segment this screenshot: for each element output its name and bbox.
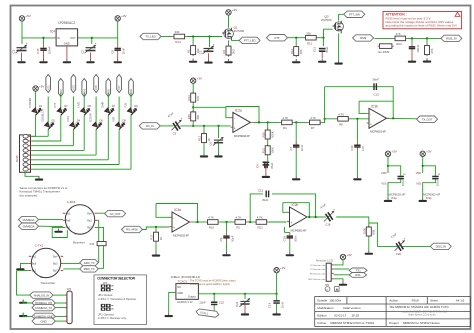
- junction: [295, 121, 297, 123]
- wire to C20: [369, 223, 398, 246]
- supply +3V3 bias: [191, 77, 203, 84]
- pin 4 RJ45: [23, 149, 28, 153]
- junction: [426, 37, 428, 39]
- svg-text:LIVE: LIVE: [77, 102, 81, 108]
- ground IC2p: [384, 198, 392, 202]
- wire RJ45 pin7: [32, 164, 119, 166]
- wire R11 to Q3 gate: [318, 29, 333, 38]
- wire C-TX1 to flag 1200: [63, 262, 79, 264]
- polarized capacitor C2: [81, 41, 97, 53]
- svg-text:100n: 100n: [294, 235, 298, 242]
- op-amp IC3b MCP6002: [367, 104, 389, 133]
- svg-text:Ru1: Ru1: [66, 212, 71, 215]
- wire to C8: [117, 38, 119, 45]
- wire C2 to gnd: [90, 53, 92, 60]
- wire DVMEGA_RX to JP4: [55, 302, 64, 304]
- pin JP4 ANALOG_IN: [64, 294, 67, 296]
- net flag RSSI: [353, 35, 374, 41]
- wire IC2a out: [253, 121, 280, 123]
- svg-text:100K: 100K: [271, 147, 275, 154]
- svg-text:-: -: [291, 211, 292, 215]
- wire Q1 source to flag: [231, 39, 239, 41]
- wire RJ45 pin4: [32, 149, 84, 151]
- svg-text:9600_TX: 9600_TX: [84, 267, 95, 271]
- wire flag to IC3a +in: [143, 227, 170, 230]
- ground R25: [423, 58, 431, 62]
- svg-text:IO5: IO5: [94, 85, 98, 90]
- svg-text:1K: 1K: [159, 237, 163, 241]
- svg-text:R30: R30: [261, 132, 265, 138]
- wire to R30: [267, 122, 269, 129]
- ground IC4: [63, 59, 71, 63]
- wire C-TX1 gnd: [20, 263, 28, 266]
- svg-text:JP1: JP1: [103, 281, 108, 285]
- wire R16 to R2: [220, 221, 234, 223]
- svg-text:+3V: +3V: [346, 253, 351, 257]
- wire C20 to flag: [402, 245, 430, 247]
- svg-text:10K: 10K: [196, 96, 200, 101]
- svg-text:RJ45: RJ45: [15, 155, 19, 162]
- svg-text:according the maximum level of: according the maximum level of RSSI. (He…: [386, 23, 457, 27]
- svg-text:MCP6002-I/P: MCP6002-I/P: [291, 228, 307, 232]
- svg-text:10K: 10K: [196, 115, 200, 120]
- LED D7 DMR: [104, 105, 115, 116]
- svg-text:100nF: 100nF: [47, 46, 51, 54]
- svg-text:JP1 Opened: JP1 Opened: [98, 313, 114, 317]
- svg-text:C9: C9: [219, 237, 223, 241]
- svg-text:10nF: 10nF: [300, 144, 304, 151]
- svg-text:Ru3: Ru3: [87, 219, 92, 222]
- wire R30 to R31: [267, 141, 269, 146]
- wire to C6: [218, 126, 220, 138]
- svg-text:Initial version: Initial version: [343, 306, 361, 310]
- svg-text:Ex-RSSI: Ex-RSSI: [379, 50, 390, 54]
- svg-text:VDD: VDD: [381, 171, 387, 175]
- svg-text:4.7K: 4.7K: [310, 116, 316, 120]
- svg-text:Bu2: Bu2: [32, 270, 37, 273]
- net flag 1200 TX: [80, 259, 99, 265]
- svg-text:R19: R19: [90, 243, 95, 246]
- svg-text:IC3a: IC3a: [174, 208, 181, 212]
- svg-text:OUT: OUT: [70, 36, 76, 40]
- net flag LED6: [106, 79, 111, 97]
- resistor R12 1K: [198, 132, 211, 144]
- resistor R8 4.7K: [336, 112, 350, 126]
- svg-text:R12: R12: [198, 135, 202, 141]
- svg-text:TCXO1: TCXO1: [178, 280, 188, 284]
- svg-text:GND: GND: [64, 42, 70, 46]
- svg-text:2N7000: 2N7000: [321, 18, 332, 22]
- wire C-RX1 gnd loop: [52, 227, 67, 237]
- svg-text:4.7K: 4.7K: [338, 112, 344, 116]
- svg-text:C: C: [403, 173, 407, 175]
- trimmer capacitor C6: [209, 137, 224, 145]
- resistor R14 330: [172, 30, 186, 44]
- title block: [315, 297, 471, 327]
- transistor Q1 2N7000: [222, 25, 244, 40]
- svg-text:R22: R22: [258, 226, 264, 230]
- svg-text:10nF: 10nF: [122, 48, 126, 55]
- svg-text:IC3p: IC3p: [426, 196, 432, 200]
- svg-text:DMR: DMR: [101, 101, 105, 107]
- wire to C22: [213, 294, 215, 302]
- junction: [91, 37, 93, 39]
- svg-text:C13: C13: [374, 93, 380, 97]
- net flag DVMEGA1: [19, 216, 39, 222]
- junction: [387, 165, 389, 167]
- wire C18 to R21: [336, 217, 369, 228]
- wire to C10: [356, 119, 358, 142]
- wire IC3b inner feedback: [359, 100, 393, 102]
- voltage regulator IC4 LP2950ACZ: [50, 21, 78, 59]
- ground C2: [86, 59, 94, 63]
- svg-text:+3V: +3V: [121, 14, 126, 18]
- resistor R24 27K: [393, 32, 407, 46]
- svg-text:+: +: [404, 237, 406, 241]
- net flag RSSI 3V: [441, 35, 462, 41]
- connector JP4 header: [67, 288, 72, 324]
- junction: [155, 226, 157, 228]
- net flag LCD TX: [349, 268, 367, 273]
- net flag DVMEGA_GND: [32, 313, 55, 319]
- svg-text:IC2p: IC2p: [391, 196, 397, 200]
- wire C14 to gnd: [276, 304, 278, 311]
- svg-text:GND Nextion side: GND Nextion side: [308, 278, 326, 281]
- svg-text:39nF: 39nF: [373, 78, 380, 82]
- svg-text:C5: C5: [173, 132, 177, 136]
- svg-text:D6: D6: [100, 118, 104, 122]
- capacitor C8 10nF: [110, 45, 125, 55]
- wire to R10: [295, 38, 297, 46]
- net flag LED4: [82, 79, 87, 97]
- wire C-RX1 down2: [97, 227, 103, 268]
- supply +3V3 IC2p: [385, 150, 397, 157]
- svg-text:ANALOG_IN: ANALOG_IN: [34, 293, 49, 297]
- net flag DISC: [430, 243, 451, 249]
- svg-text:D9: D9: [134, 104, 138, 108]
- junction: [308, 216, 310, 218]
- svg-text:Transmitter: Transmitter: [40, 281, 55, 285]
- svg-text:VSS: VSS: [416, 181, 421, 185]
- svg-text:Ru7: Ru7: [87, 227, 92, 230]
- resistor R13 10K: [187, 92, 200, 104]
- svg-text:-: -: [234, 116, 235, 120]
- wire LCD RX: [334, 274, 350, 276]
- svg-text:C7: C7: [289, 146, 293, 150]
- wire to C1: [21, 38, 23, 44]
- svg-text:NC: NC: [177, 285, 181, 289]
- ground C23: [408, 58, 416, 62]
- svg-text:HCMOS 3.3V: HCMOS 3.3V: [177, 300, 193, 304]
- wire R22 to IC2b: [268, 221, 286, 223]
- junction: [244, 293, 246, 295]
- svg-text:R2: R2: [236, 226, 240, 230]
- polarized capacitor C1: [12, 41, 28, 53]
- wire gnd to flag 2: [23, 313, 32, 317]
- svg-text:Receiver: Receiver: [73, 240, 85, 244]
- svg-text:IC2b: IC2b: [292, 203, 299, 207]
- svg-text:D4: D4: [77, 118, 81, 122]
- svg-text:TX_OUT: TX_OUT: [422, 117, 433, 121]
- svg-text:R16: R16: [209, 226, 215, 230]
- wire R31 to C4: [267, 156, 269, 161]
- net flag DVMEGA_TX: [32, 304, 55, 310]
- svg-text:C3: C3: [199, 50, 203, 54]
- capacitor C10 1nF: [350, 142, 365, 152]
- svg-text:Fichier: Fichier: [317, 321, 326, 325]
- ground R17: [152, 252, 160, 256]
- svg-text:RX1: RX1: [355, 273, 361, 277]
- wire C9 to gnd: [226, 241, 228, 252]
- net flag PTT: [267, 35, 288, 41]
- svg-text:C11: C11: [313, 47, 317, 52]
- ground C3: [204, 59, 212, 63]
- resistor R31 100K: [261, 144, 274, 156]
- net flag XTAL: [196, 308, 220, 317]
- wire R21 to gnd: [368, 238, 370, 251]
- wire LED D2 to connector: [47, 130, 49, 137]
- capacitor C12 39nF: [266, 191, 270, 198]
- wire feedback to -in: [283, 203, 287, 213]
- svg-text:Project: Project: [389, 321, 399, 325]
- wire C13 loop: [325, 87, 394, 119]
- svg-text:Title MMDVM for STM32F4 with: Title MMDVM for STM32F4 with HCMOS TCXO: [389, 305, 449, 309]
- svg-text:Nextion LCD: Nextion LCD: [316, 258, 334, 262]
- polarized capacitor C5 47uF: [167, 111, 183, 135]
- svg-text:-: -: [370, 112, 371, 116]
- capacitor C19 100nF: [282, 232, 297, 242]
- svg-text:YSF: YSF: [112, 116, 116, 121]
- wire cap to gnd IC2p: [388, 179, 401, 197]
- pin JP4 GND: [64, 320, 67, 322]
- svg-text:C2: C2: [81, 49, 85, 53]
- svg-text:10K: 10K: [299, 49, 303, 54]
- svg-text:C18: C18: [325, 223, 331, 227]
- wire R4 to R7: [294, 121, 308, 123]
- wire C1 to gnd: [21, 53, 23, 60]
- svg-text:DVMEGA_TX: DVMEGA_TX: [35, 306, 52, 310]
- connector C-RX1 Receiver: [63, 200, 97, 244]
- wire LCD 5V: [334, 260, 343, 265]
- svg-text:Bu3: Bu3: [53, 263, 58, 266]
- wire C15 to gnd: [43, 54, 45, 59]
- pin 7 RJ45: [23, 163, 28, 167]
- wire RJ45 to ground: [25, 172, 39, 176]
- svg-text:+: +: [26, 41, 28, 45]
- svg-text:D2: D2: [52, 118, 56, 122]
- svg-text:GND: GND: [41, 319, 48, 323]
- pin JP4 DVMEGA_TX: [64, 307, 67, 309]
- svg-text:R11: R11: [307, 41, 312, 45]
- pin JP5 3: [331, 272, 333, 274]
- junction: [422, 165, 424, 167]
- wire to C11: [323, 38, 325, 46]
- resistor R11 330: [304, 31, 318, 45]
- wire gnd to flag: [23, 300, 32, 304]
- net flag TXLED: [140, 33, 161, 39]
- resistor R1 10K: [187, 44, 200, 56]
- svg-text:+3V: +3V: [232, 8, 237, 12]
- svg-text:IC2a: IC2a: [235, 108, 242, 112]
- junction: [392, 117, 394, 119]
- wire RSSI flag to R24: [374, 37, 393, 39]
- net flag 9600 TX: [80, 266, 99, 272]
- wire feedback to -in: [156, 204, 170, 218]
- junction: [249, 221, 251, 223]
- svg-text:4.7K: 4.7K: [208, 216, 214, 220]
- pin JP4 DVMEGA_GND: [64, 315, 67, 317]
- wire to LED D7: [107, 93, 109, 109]
- wire R24 to flag: [407, 37, 441, 39]
- wire +3V3 to R13: [192, 83, 194, 93]
- svg-text:1nF: 1nF: [361, 146, 365, 151]
- svg-text:Ru2: Ru2: [66, 227, 71, 230]
- net flag LCD RX: [349, 273, 367, 278]
- wire C8 to gnd: [117, 54, 119, 59]
- wire C-RX1 to flag: [97, 212, 104, 214]
- svg-text:RX_IN: RX_IN: [146, 124, 154, 128]
- LED D5 LIVE: [80, 105, 91, 116]
- svg-text:100nF: 100nF: [436, 178, 440, 186]
- wire R12 to gnd: [203, 144, 205, 153]
- svg-text:+: +: [370, 122, 372, 126]
- svg-text:R8: R8: [339, 122, 343, 126]
- resistor R4 4.7K: [280, 116, 294, 130]
- svg-text:D3: D3: [64, 104, 68, 108]
- svg-text:R7: R7: [311, 126, 315, 130]
- LED D9 P25: [127, 105, 138, 116]
- LED D2 SQUELCH: [44, 120, 55, 131]
- supply +3V3 Q1: [226, 8, 238, 15]
- resistor R19: [90, 242, 106, 246]
- wire C7 to gnd: [295, 151, 297, 177]
- op-amp IC2b MCP6002: [287, 203, 309, 232]
- wire C3 to gnd: [208, 53, 210, 59]
- polarized capacitor C20 47uF: [390, 232, 406, 256]
- svg-text:47uF: 47uF: [325, 46, 329, 53]
- resistor R25 47K: [425, 44, 434, 56]
- wire to LED D5: [83, 93, 85, 109]
- svg-text:+3V: +3V: [426, 150, 431, 154]
- op-amp IC3a MCP6002: [170, 208, 192, 237]
- wire vref to feedback: [193, 106, 226, 108]
- svg-text:+: +: [181, 116, 183, 120]
- oscillator TCXO1 FOX924B: [176, 284, 199, 305]
- wire LED D6 to connector: [95, 130, 97, 155]
- wire TCXO gnd: [169, 292, 176, 312]
- svg-text:1K: 1K: [207, 138, 211, 142]
- junction: [192, 106, 194, 108]
- wire R14 to Q1 gate: [186, 36, 222, 38]
- svg-text:R17: R17: [150, 234, 154, 240]
- svg-text:JP4: JP4: [67, 288, 72, 291]
- capacitor C15 100nF: [36, 45, 51, 55]
- ground C-TX1: [16, 266, 24, 270]
- svg-text:LP2950ACZ: LP2950ACZ: [58, 21, 75, 25]
- wire IC4 output to +3V3: [78, 22, 118, 38]
- wire R17 to gnd: [155, 243, 157, 253]
- resistor R10 10K: [290, 45, 303, 57]
- svg-text:22nF: 22nF: [199, 301, 206, 305]
- svg-text:DSTAR: DSTAR: [89, 113, 93, 122]
- ground R1: [189, 59, 197, 63]
- wire C-TX1 to flag 9600: [63, 268, 79, 270]
- wire C23 to gnd: [411, 52, 413, 58]
- wire to R12: [203, 126, 205, 133]
- connector JP5 Nextion: [325, 263, 331, 287]
- LED D4 COS: [69, 120, 80, 131]
- svg-text:TX_LED: TX_LED: [145, 35, 156, 39]
- pin JP5 4: [331, 278, 333, 280]
- svg-text:Ru6: Ru6: [66, 219, 71, 222]
- ground IC3p: [419, 198, 427, 202]
- wire LED D4 to connector: [72, 130, 74, 146]
- svg-text:5V Nextion side: 5V Nextion side: [310, 264, 326, 267]
- ground C4: [262, 174, 270, 178]
- capacitor C14 10nF: [267, 300, 284, 308]
- wire C5 to IC2a +in: [180, 125, 230, 127]
- svg-text:C14: C14: [267, 302, 271, 308]
- junction: [315, 216, 317, 218]
- wire to C19: [285, 231, 290, 233]
- wire PTT flag to R11: [288, 37, 305, 39]
- svg-text:C1: C1: [12, 49, 16, 53]
- svg-text:C21: C21: [235, 301, 239, 307]
- wire Q3 source down: [338, 33, 340, 60]
- svg-text:02-01-17: 02-01-17: [334, 313, 346, 317]
- svg-text:C-RX1 => Transceive & Receiver: C-RX1 => Transceive & Receiver: [98, 297, 136, 301]
- svg-text:VSS: VSS: [381, 181, 386, 185]
- ground LCD: [339, 282, 347, 286]
- svg-text:+5V: +5V: [39, 84, 44, 88]
- wire to LED D2: [47, 97, 49, 123]
- junction: [258, 121, 260, 123]
- svg-text:Bu6: Bu6: [32, 263, 37, 266]
- net flag to IC3a: [122, 226, 143, 232]
- wire ANALOG_IN to JP4: [53, 294, 64, 296]
- ground R21: [365, 251, 373, 255]
- svg-text:R98: R98: [372, 229, 376, 235]
- svg-text:+: +: [333, 207, 335, 211]
- ground TCXO: [165, 313, 173, 317]
- svg-text:C: C: [437, 173, 441, 175]
- svg-text:C15: C15: [36, 48, 40, 54]
- resistor R23 Ex-RSSI: [378, 44, 394, 54]
- svg-text:47K: 47K: [430, 48, 434, 53]
- wire RJ45 pin1: [32, 135, 49, 137]
- resistor R2 4.7K: [233, 216, 247, 230]
- wire feedback to -in: [359, 101, 367, 113]
- svg-text:COS: COS: [66, 116, 70, 122]
- wire to LED D3: [60, 93, 62, 109]
- wire to C9: [226, 222, 228, 232]
- LED D6 DSTAR: [92, 120, 103, 131]
- connector C-TX1 Transmitter: [29, 244, 63, 286]
- capacitor C23 100nF: [409, 43, 420, 53]
- transistor Q3 2N7000: [321, 15, 343, 34]
- ground flag group 1: [19, 300, 27, 304]
- jumper JP1 closed: [101, 285, 114, 292]
- wire to C23: [411, 38, 413, 43]
- svg-text:C-RX1: C-RX1: [67, 200, 76, 204]
- svg-text:A4 1/1: A4 1/1: [456, 298, 465, 302]
- pin 3 RJ45: [23, 144, 28, 148]
- svg-text:IN: IN: [57, 36, 60, 40]
- polarized capacitor C3: [199, 42, 215, 54]
- wire C-TX1 to ANALOG flag: [17, 271, 30, 296]
- wire to LED D1: [35, 91, 37, 108]
- wire IC2a feedback: [226, 107, 259, 123]
